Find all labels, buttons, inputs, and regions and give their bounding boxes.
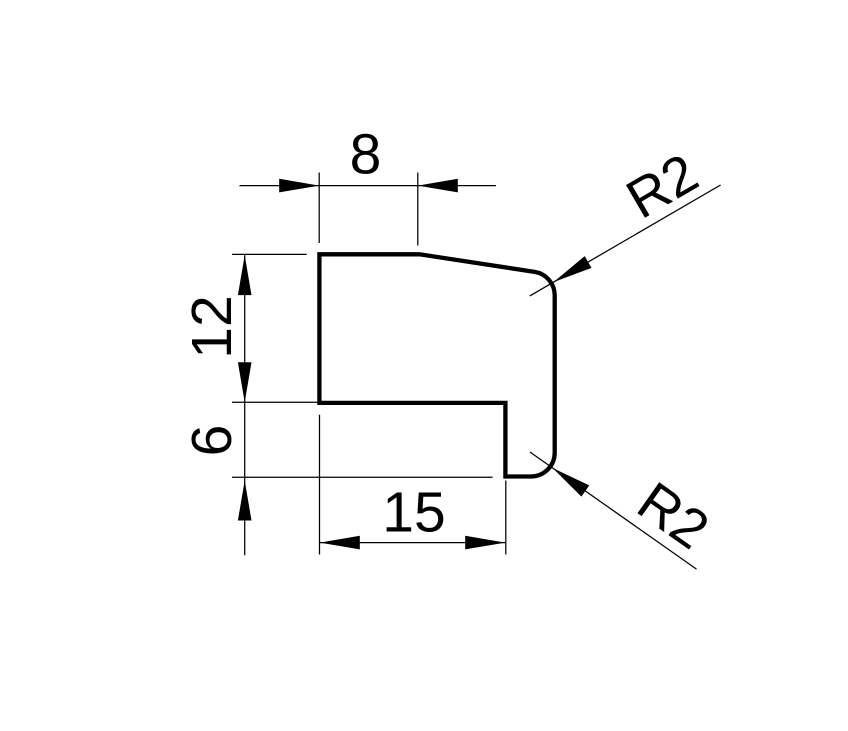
svg-text:12: 12 (180, 295, 244, 358)
svg-text:15: 15 (382, 481, 445, 545)
svg-text:8: 8 (350, 123, 382, 187)
svg-text:6: 6 (180, 425, 244, 457)
